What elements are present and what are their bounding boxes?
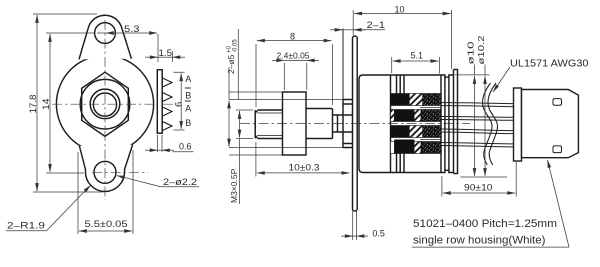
- coil row 3: [391, 126, 410, 138]
- svg-text:M3×0.5P: M3×0.5P: [229, 168, 239, 203]
- dim 90+-10: [442, 161, 516, 197]
- wire 4: [441, 143, 514, 147]
- coil row 4: [391, 142, 395, 154]
- centerline horizontal front view: [52, 103, 174, 105]
- front view dimension texts: [7, 24, 197, 231]
- overlines for phase labels: [185, 88, 191, 101]
- cable break wavy lines: [483, 83, 498, 165]
- svg-text:B: B: [185, 91, 191, 101]
- thread root lines: [257, 113, 283, 136]
- pole plate lines bottom: [397, 154, 405, 173]
- dim 8: [256, 44, 333, 107]
- wire 1: [441, 103, 514, 107]
- lead wires: [441, 103, 514, 147]
- ext line x172.4: [171, 51, 173, 62]
- svg-text:ø10: ø10: [465, 41, 475, 64]
- dim 6 line: [180, 73, 182, 129]
- ear bend line (2-1): [342, 29, 344, 100]
- svg-text:B: B: [185, 118, 191, 128]
- leader UL1571: [493, 67, 510, 92]
- centerline bottom hole: [92, 171, 148, 173]
- front boss: [343, 100, 353, 148]
- wire 2: [441, 116, 514, 120]
- svg-text:0.5: 0.5: [372, 229, 385, 239]
- svg-text:UL1571 AWG30: UL1571 AWG30: [510, 58, 589, 70]
- dim 2-1: [330, 29, 343, 31]
- leader 2-R1.9: [47, 185, 91, 230]
- svg-text:2–ø5: 2–ø5: [226, 54, 236, 74]
- dim 10+-0.3: [255, 142, 257, 177]
- svg-text:8: 8: [290, 32, 295, 42]
- dim 0.6 ext lines: [158, 135, 163, 152]
- ext line x158: [157, 34, 159, 62]
- svg-text:6: 6: [174, 102, 185, 107]
- winding stack rows: [391, 94, 442, 154]
- dim 17.8 line: [36, 15, 38, 191]
- svg-text:17.8: 17.8: [28, 95, 38, 114]
- motor body circle: [56, 55, 153, 152]
- dim 14 extension lines: [46, 33, 94, 173]
- svg-text:2–ø2.2: 2–ø2.2: [163, 177, 197, 187]
- dim 10 top: [353, 10, 451, 69]
- bottom ear hole: [94, 161, 116, 183]
- collar / pinion gear: [283, 92, 307, 155]
- svg-text:10±0.3: 10±0.3: [289, 163, 320, 173]
- side view dimension texts: [226, 5, 589, 247]
- dim 0.6 underline: [172, 151, 193, 153]
- bearing circle outer: [80, 79, 130, 129]
- svg-text:5.3: 5.3: [124, 24, 140, 34]
- svg-text:5.5±0.05: 5.5±0.05: [85, 219, 128, 230]
- leader 51021 housing: [412, 246, 569, 248]
- dim 17.8 extension lines: [33, 14, 103, 192]
- svg-text:2–R1.9: 2–R1.9: [7, 221, 45, 231]
- hex boss: [82, 72, 129, 136]
- wire 3: [441, 129, 514, 134]
- bearing circle inner: [93, 93, 116, 116]
- centerline side view: [240, 123, 470, 125]
- coil row 1: [391, 94, 410, 106]
- gear detail (right of front view): [157, 70, 172, 133]
- dia 10 / 10.2 top ext: [455, 65, 490, 76]
- svg-text:10: 10: [395, 5, 405, 15]
- svg-text:A: A: [185, 104, 191, 114]
- svg-text:single row housing(White): single row housing(White): [413, 235, 546, 247]
- connector: [514, 88, 579, 161]
- mounting flange plate: [353, 36, 358, 211]
- svg-text:14: 14: [41, 99, 51, 111]
- pole plate lines top: [397, 75, 405, 94]
- dia 10 / 10.2 bottom ext: [461, 176, 508, 178]
- motor can outline: [359, 75, 454, 173]
- svg-text:A: A: [185, 74, 191, 84]
- gear hub rect: [157, 70, 162, 133]
- text 2-d5: [226, 39, 239, 74]
- dim 5.1: [392, 57, 440, 74]
- centerline vertical front view: [104, 20, 106, 200]
- main housing: [522, 90, 579, 158]
- dim 14 line: [49, 34, 51, 172]
- coil row 2: [391, 110, 395, 122]
- dim 5.5 ext lines: [78, 150, 133, 234]
- gear hub rect (white mask): [157, 70, 162, 133]
- dim 5.3 line: [106, 32, 157, 34]
- dim 5.5 line: [79, 230, 132, 232]
- dim 2.4: [284, 63, 307, 90]
- dim 1.5 arrows: [145, 56, 158, 58]
- coil exit wire stubs in gaps: [420, 108, 441, 140]
- bottom mounting ear outline: [79, 145, 132, 192]
- stator stack left edge: [390, 75, 392, 173]
- svg-text:1.5: 1.5: [159, 48, 173, 58]
- latch hole top: [553, 99, 562, 106]
- mid shaft: [306, 109, 333, 139]
- dim 2-d5: [229, 29, 238, 100]
- threaded shaft M3: [255, 110, 282, 139]
- svg-text:ø10.2: ø10.2: [476, 35, 486, 64]
- svg-text:2.4±0.05: 2.4±0.05: [277, 51, 310, 61]
- svg-text:5.1: 5.1: [411, 51, 424, 61]
- top ear hole: [95, 23, 116, 44]
- extension ladder lines (collar + boss): [229, 92, 343, 155]
- dim M3 ext: [236, 110, 253, 139]
- rear inner verticals: [441, 75, 449, 173]
- gear teeth: [162, 78, 172, 131]
- top mounting ear (white mask): [79, 15, 131, 59]
- dim 0.5: [353, 211, 357, 240]
- svg-text:90±10: 90±10: [464, 183, 493, 193]
- latch hole bottom: [553, 146, 562, 153]
- dim 0.6 arrows: [145, 149, 158, 151]
- svg-text:-0.05: -0.05: [233, 39, 239, 53]
- top mounting ear outline: [79, 15, 131, 59]
- rear cover plate: [454, 70, 458, 174]
- crimp housing: [514, 88, 522, 161]
- svg-text:0.6: 0.6: [179, 142, 192, 152]
- svg-text:51021–0400 Pitch=1.25mm: 51021–0400 Pitch=1.25mm: [413, 218, 557, 230]
- svg-text:2–1: 2–1: [367, 20, 386, 30]
- neck: [333, 115, 353, 132]
- bottom mounting ear (white mask): [79, 145, 132, 192]
- dim 6 ext ticks: [174, 72, 185, 130]
- leader 2-d2.2: [117, 176, 161, 187]
- bearing circle mid: [90, 89, 120, 119]
